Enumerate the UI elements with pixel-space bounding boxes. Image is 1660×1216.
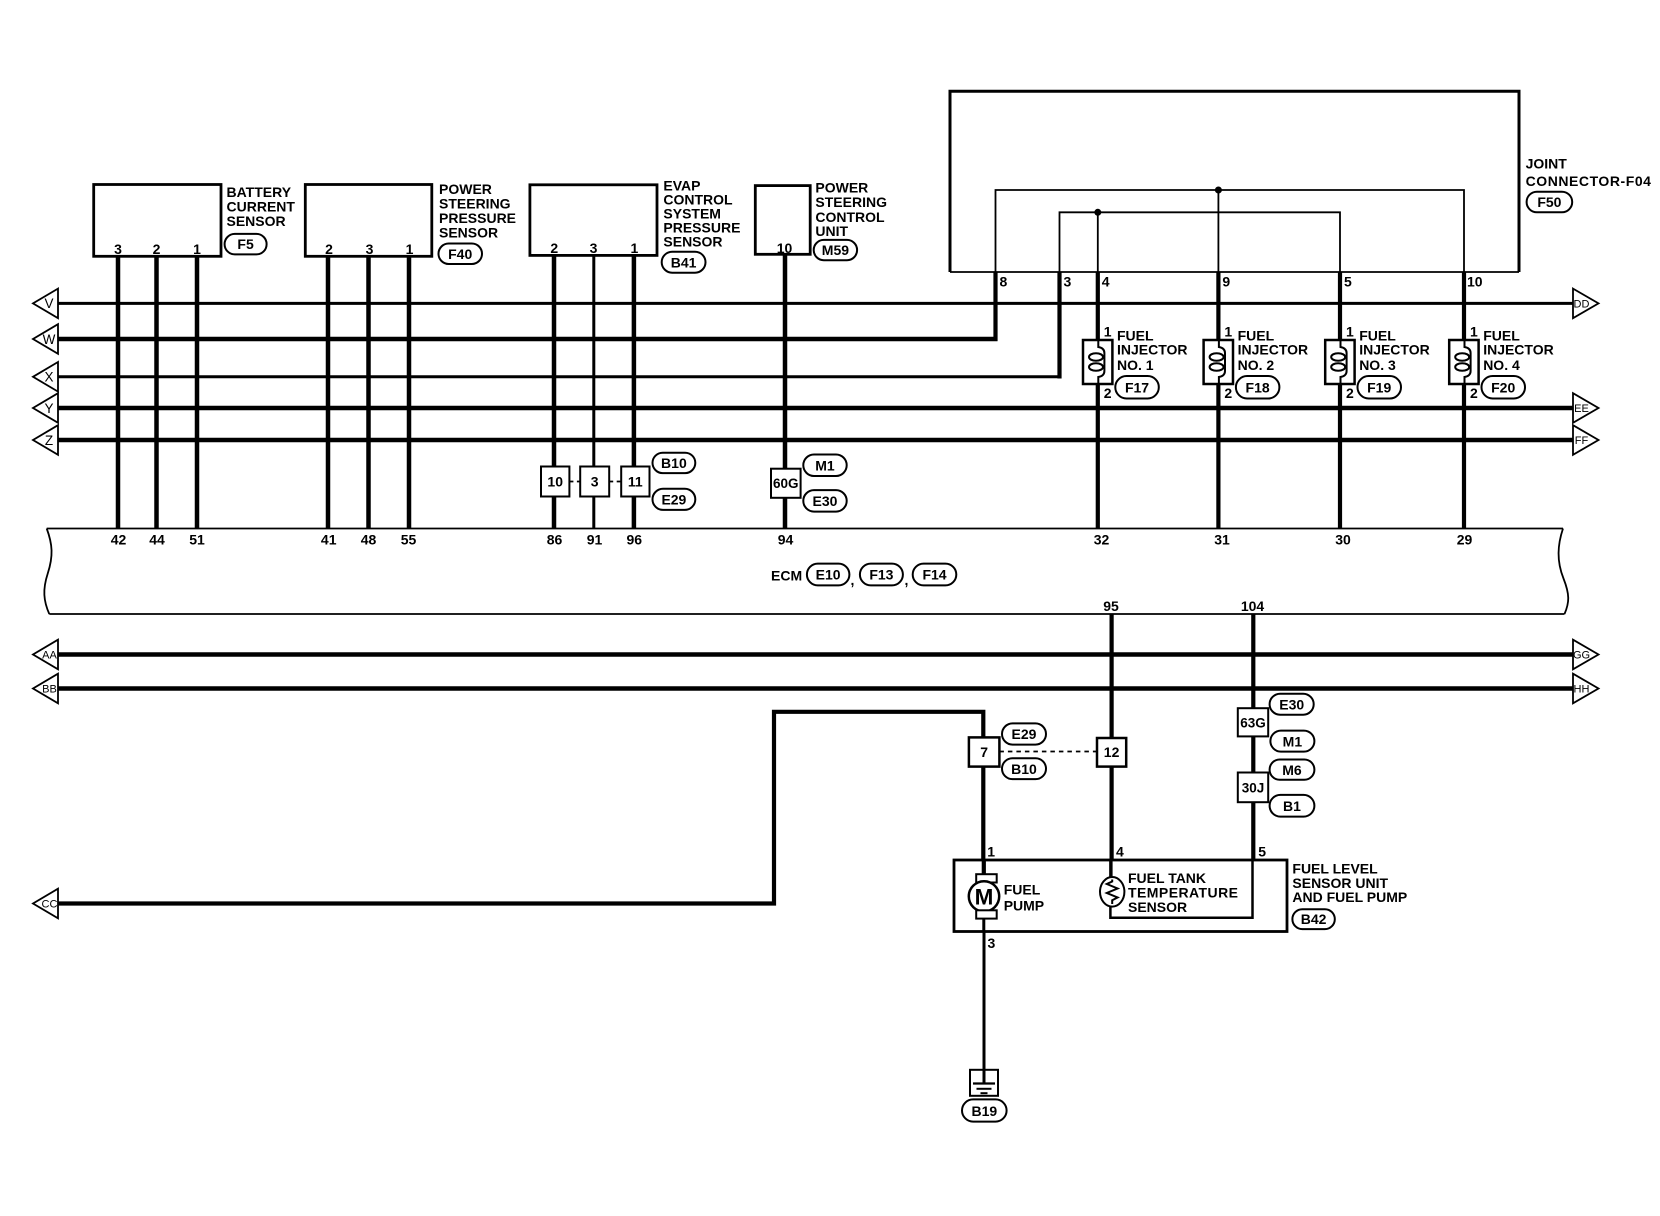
svg-text:X: X	[44, 370, 53, 385]
svg-text:2: 2	[1346, 385, 1354, 401]
svg-text:,: ,	[851, 572, 855, 588]
connector label F17	[1115, 376, 1159, 399]
svg-text:8: 8	[1000, 274, 1008, 290]
svg-text:,: ,	[905, 572, 909, 588]
connector label B19	[962, 1099, 1007, 1121]
connector label F50	[1527, 192, 1573, 213]
svg-text:GG: GG	[1573, 650, 1590, 662]
node AA arrow	[33, 640, 58, 670]
power steering control unit box M59	[755, 180, 887, 256]
connector label E29 (lower)	[1002, 723, 1046, 744]
node BB arrow	[33, 674, 58, 704]
svg-text:INJECTOR: INJECTOR	[1238, 342, 1309, 358]
svg-text:2: 2	[1224, 385, 1232, 401]
svg-text:1: 1	[193, 241, 201, 257]
connector label M1 (lower)	[1270, 731, 1314, 752]
svg-text:44: 44	[149, 532, 165, 548]
splice box 60G on M59 pin 10 wire	[771, 469, 801, 498]
dashed link between splice boxes 10 and 3	[569, 481, 580, 483]
wire joint connector pin 4 to fuel injector no.1	[1096, 272, 1100, 342]
svg-text:JOINT: JOINT	[1526, 155, 1568, 171]
wire power steering control unit pin 10 to ECM 94	[783, 254, 788, 529]
connector label E10	[807, 564, 854, 588]
svg-text:FUEL: FUEL	[1004, 881, 1041, 897]
svg-text:F40: F40	[448, 246, 472, 262]
svg-text:48: 48	[361, 532, 377, 548]
svg-text:3: 3	[590, 240, 598, 256]
svg-text:1: 1	[1470, 324, 1478, 340]
svg-text:42: 42	[111, 532, 127, 548]
svg-text:F18: F18	[1246, 380, 1270, 396]
wire EVAP sensor pin 1 to ECM 96	[632, 255, 637, 529]
node Y arrow	[33, 393, 58, 423]
node X arrow	[33, 362, 58, 392]
svg-text:INJECTOR: INJECTOR	[1359, 342, 1430, 358]
wire power steering pressure sensor pin 2 to ECM 41	[326, 256, 331, 529]
wire battery current sensor pin 3 to ECM 42	[116, 256, 121, 529]
joint connector title	[1526, 155, 1652, 189]
svg-text:B1: B1	[1283, 798, 1301, 814]
svg-text:M6: M6	[1282, 762, 1302, 778]
svg-text:1: 1	[1346, 324, 1354, 340]
wire fuel pump pin 3 to ground B19	[983, 932, 986, 1084]
svg-text:NO. 3: NO. 3	[1359, 357, 1396, 373]
svg-text:M: M	[975, 884, 994, 909]
svg-text:5: 5	[1258, 844, 1266, 860]
node GG arrow	[1573, 640, 1599, 670]
connector label M59	[814, 240, 857, 260]
wire bus BB (left arrow BB to right arrow HH)	[57, 686, 1573, 691]
svg-text:M1: M1	[815, 458, 835, 474]
svg-text:91: 91	[587, 532, 603, 548]
fuel tank temperature sensor inner box	[1110, 860, 1252, 918]
svg-text:E30: E30	[1279, 696, 1304, 712]
wire joint connector pin 4 internal stub	[1097, 212, 1099, 272]
EVAP control system pressure sensor box B41	[530, 177, 741, 256]
wire bus Z (left arrow Z to right arrow FF)	[57, 438, 1573, 443]
svg-text:5: 5	[1344, 274, 1352, 290]
ECM label	[771, 568, 802, 584]
svg-text:41: 41	[321, 532, 337, 548]
node W arrow	[33, 324, 58, 354]
wire joint connector pin 5 to fuel injector no.3	[1338, 272, 1342, 342]
joint connector F50 box	[950, 91, 1519, 272]
svg-text:31: 31	[1214, 532, 1230, 548]
wire EVAP sensor pin 3 to ECM 91	[592, 255, 595, 529]
svg-text:30: 30	[1335, 532, 1351, 548]
node FF arrow	[1573, 425, 1599, 455]
connector label B1	[1270, 795, 1315, 817]
svg-text:4: 4	[1116, 844, 1124, 860]
svg-text:10: 10	[547, 474, 563, 490]
svg-text:NO. 4: NO. 4	[1483, 357, 1520, 373]
svg-text:94: 94	[778, 532, 794, 548]
svg-text:3: 3	[1064, 274, 1072, 290]
splice box 7 on fuel pump feed wire	[969, 737, 1000, 766]
wire bus Y (left arrow Y to right arrow EE)	[57, 406, 1573, 411]
node CC arrow	[33, 889, 58, 919]
svg-text:63G: 63G	[1240, 715, 1266, 730]
fuel injector no.4 F20	[1449, 324, 1554, 401]
svg-text:CC: CC	[42, 899, 58, 911]
svg-text:B10: B10	[1011, 761, 1037, 777]
svg-text:104: 104	[1241, 598, 1265, 614]
svg-text:2: 2	[325, 241, 333, 257]
wire ECM 104 to fuel level sensor pin 5	[1251, 614, 1255, 860]
fuel injector no.3 F19	[1325, 324, 1430, 401]
svg-text:E29: E29	[1012, 726, 1037, 742]
splice box 12 on ECM 95 wire	[1097, 738, 1126, 767]
svg-text:3: 3	[366, 241, 374, 257]
connector label F14	[913, 564, 957, 586]
node HH arrow	[1573, 674, 1599, 704]
wire power steering pressure sensor pin 3 to ECM 48	[366, 256, 371, 529]
svg-text:SENSOR: SENSOR	[663, 234, 722, 250]
svg-text:M59: M59	[822, 242, 849, 258]
svg-text:B19: B19	[971, 1103, 997, 1119]
connector label F13	[860, 564, 908, 588]
wire joint connector pin 8 down to bus W	[993, 272, 997, 341]
wire power steering pressure sensor pin 1 to ECM 55	[407, 256, 412, 529]
wire joint connector internal bus 2 (pins 3-4-5)	[1060, 212, 1341, 272]
svg-text:HH: HH	[1574, 684, 1590, 696]
svg-text:60G: 60G	[773, 476, 799, 491]
connector label F18	[1236, 376, 1280, 399]
wire ECM 95 to fuel tank temperature sensor pin 4	[1109, 614, 1113, 860]
svg-text:9: 9	[1222, 274, 1230, 290]
connector label B10 (lower)	[1002, 758, 1046, 779]
battery current sensor box F5	[94, 184, 296, 257]
svg-text:4: 4	[1102, 274, 1110, 290]
connector label M1 (upper)	[803, 455, 846, 477]
wire fuel injector no.4 pin 2 to ECM 29	[1462, 382, 1466, 529]
wire fuel injector no.3 pin 2 to ECM 30	[1338, 382, 1342, 529]
svg-text:32: 32	[1094, 532, 1110, 548]
wire joint connector internal bus 1 (pins 8-9-10)	[996, 190, 1465, 272]
node V arrow	[33, 289, 58, 319]
svg-text:F13: F13	[869, 567, 893, 583]
connector label F19	[1358, 376, 1402, 399]
connector label B10 (upper)	[653, 453, 696, 473]
connector label E29 (upper)	[653, 489, 696, 510]
svg-text:3: 3	[591, 474, 599, 490]
svg-text:SENSOR: SENSOR	[227, 213, 286, 229]
svg-text:1: 1	[1224, 324, 1232, 340]
dashed link between splice boxes 3 and 11	[609, 481, 621, 483]
connector label B42	[1292, 909, 1334, 929]
svg-text:1: 1	[631, 240, 639, 256]
wire bus V (left arrow V to right arrow DD)	[57, 302, 1573, 305]
wire fuel injector no.1 pin 2 to ECM 32	[1096, 382, 1100, 529]
svg-text:W: W	[43, 332, 56, 347]
svg-text:PUMP: PUMP	[1004, 897, 1044, 913]
splice box 63G on ECM 104 wire	[1238, 708, 1268, 736]
svg-text:3: 3	[114, 241, 122, 257]
ground symbol B19	[970, 1070, 998, 1096]
connector label F40	[439, 244, 483, 265]
svg-text:1: 1	[406, 241, 414, 257]
svg-text:F5: F5	[237, 236, 254, 252]
wire joint connector pin 10 to fuel injector no.4	[1462, 272, 1466, 342]
svg-text:UNIT: UNIT	[815, 223, 848, 239]
svg-text:1: 1	[987, 844, 995, 860]
svg-text:2: 2	[1104, 385, 1112, 401]
wire joint connector pin 9 to fuel injector no.2	[1216, 272, 1220, 342]
fuel level sensor unit title	[1292, 861, 1407, 906]
svg-text:10: 10	[777, 240, 793, 256]
svg-text:10: 10	[1467, 274, 1483, 290]
fuel injector no.1 F17	[1083, 324, 1188, 401]
joint connector pin labels	[1000, 274, 1483, 290]
svg-text:F19: F19	[1367, 380, 1391, 396]
svg-text:12: 12	[1104, 744, 1120, 760]
svg-text:DD: DD	[1574, 298, 1590, 310]
svg-text:Y: Y	[44, 401, 53, 416]
connector label E30 (upper)	[803, 490, 846, 512]
svg-text:1: 1	[1104, 324, 1112, 340]
svg-text:11: 11	[628, 474, 643, 490]
svg-text:B41: B41	[671, 255, 697, 271]
svg-text:E10: E10	[816, 567, 841, 583]
node DD arrow	[1573, 289, 1599, 319]
junction dot on internal bus 2 at pin 4	[1094, 209, 1101, 216]
connector label F5	[225, 234, 267, 255]
svg-text:ECM: ECM	[771, 568, 802, 584]
svg-text:F14: F14	[922, 567, 946, 583]
power steering pressure sensor box F40	[305, 181, 516, 257]
connector label B41	[662, 252, 706, 273]
svg-text:3: 3	[988, 935, 996, 951]
svg-text:F50: F50	[1537, 194, 1561, 210]
node EE arrow	[1573, 393, 1599, 423]
wire bus X (left arrow X to joint connector pin 3)	[57, 375, 1061, 378]
fuel injector no.2 F18	[1204, 324, 1309, 401]
svg-text:55: 55	[401, 532, 417, 548]
svg-text:SENSOR: SENSOR	[1128, 899, 1187, 915]
wire bus W (left arrow W to joint connector pin 8)	[57, 337, 998, 342]
svg-text:STEERING: STEERING	[815, 194, 887, 210]
svg-text:FF: FF	[1575, 435, 1589, 447]
junction dot on internal bus 1 at pin 9	[1215, 187, 1222, 194]
svg-text:M1: M1	[1283, 733, 1303, 749]
wire joint connector pin 9 internal stub	[1217, 190, 1219, 272]
svg-text:NO. 2: NO. 2	[1238, 357, 1275, 373]
svg-text:F17: F17	[1125, 380, 1149, 396]
svg-text:86: 86	[547, 532, 563, 548]
svg-text:B42: B42	[1301, 911, 1327, 927]
svg-text:Z: Z	[45, 433, 53, 448]
svg-text:NO. 1: NO. 1	[1117, 357, 1154, 373]
svg-text:INJECTOR: INJECTOR	[1483, 342, 1554, 358]
svg-text:AA: AA	[42, 650, 57, 662]
svg-text:95: 95	[1103, 598, 1119, 614]
splice box 30J on ECM 104 wire	[1238, 773, 1268, 803]
ECM pin number row	[111, 532, 1473, 548]
svg-text:2: 2	[1470, 385, 1478, 401]
svg-text:51: 51	[189, 532, 205, 548]
svg-text:29: 29	[1457, 532, 1473, 548]
svg-text:SENSOR: SENSOR	[439, 224, 498, 240]
svg-text:E29: E29	[661, 492, 686, 508]
svg-text:EE: EE	[1574, 403, 1589, 415]
wire fuel injector no.2 pin 2 to ECM 31	[1216, 382, 1220, 529]
splice box 11 on EVAP pin 1 wire	[621, 467, 649, 497]
svg-text:AND FUEL PUMP: AND FUEL PUMP	[1292, 889, 1407, 905]
splice box 10 on EVAP pin 2 wire	[541, 467, 569, 497]
svg-text:CONNECTOR-F04: CONNECTOR-F04	[1526, 173, 1652, 189]
connector label F20	[1482, 376, 1526, 399]
svg-text:E30: E30	[813, 493, 838, 509]
dashed link between splice boxes 7 and 12	[999, 751, 1097, 753]
wire EVAP sensor pin 2 to ECM 86	[552, 255, 557, 529]
wire joint connector pin 3 down to bus X	[1057, 272, 1061, 379]
wire battery current sensor pin 2 to ECM 44	[154, 256, 159, 529]
svg-text:V: V	[44, 296, 53, 311]
connector label M6	[1270, 760, 1315, 780]
svg-text:INJECTOR: INJECTOR	[1117, 342, 1188, 358]
wire bus AA (left arrow AA to right arrow GG)	[57, 652, 1573, 657]
svg-text:30J: 30J	[1242, 781, 1265, 796]
wire battery current sensor pin 1 to ECM 51	[195, 256, 200, 529]
fuel level sensor unit and fuel pump box B42	[954, 860, 1287, 932]
svg-text:BB: BB	[42, 684, 57, 696]
connector label E30 (lower)	[1270, 694, 1314, 715]
ECM box (broken-edge outline)	[44, 529, 1568, 615]
wire CC run (left arrow CC up to fuel pump feed)	[58, 712, 983, 904]
node Z arrow	[33, 425, 58, 455]
fuel pump motor symbol M	[969, 860, 1044, 932]
svg-text:7: 7	[980, 744, 988, 760]
svg-text:F20: F20	[1491, 380, 1515, 396]
fuel tank temperature sensor thermistor symbol	[1100, 860, 1238, 915]
svg-text:2: 2	[153, 241, 161, 257]
svg-text:2: 2	[550, 240, 558, 256]
splice box 3 on EVAP pin 3 wire	[580, 467, 609, 497]
svg-text:96: 96	[627, 532, 643, 548]
svg-text:B10: B10	[661, 455, 687, 471]
